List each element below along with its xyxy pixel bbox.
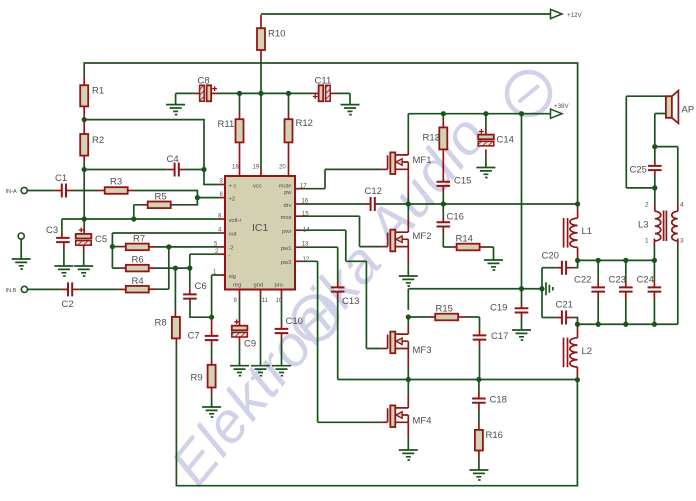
ground (MF4) <box>399 450 418 460</box>
wire C7 to R9 <box>211 347 213 359</box>
svg-text:AP: AP <box>682 105 695 116</box>
svg-text:C16: C16 <box>447 212 464 223</box>
svg-text:R14: R14 <box>456 234 473 245</box>
svg-text:17: 17 <box>300 184 307 190</box>
wire R15 to C17 <box>465 317 480 329</box>
capacitor C3 <box>56 238 70 242</box>
capacitor C23 <box>619 287 633 291</box>
svg-text:R12: R12 <box>296 118 313 129</box>
junction <box>82 167 87 172</box>
svg-text:C10: C10 <box>286 316 303 327</box>
svg-text:pw2: pw2 <box>281 260 292 266</box>
wire to L3 pin1 <box>653 246 655 261</box>
svg-text:+ c: + c <box>229 183 237 189</box>
junction <box>596 258 601 263</box>
svg-text:L1: L1 <box>582 226 593 237</box>
svg-text:+2: +2 <box>229 197 236 203</box>
chassis ground <box>546 282 553 295</box>
resistor R4 <box>126 286 149 293</box>
svg-text:+38V: +38V <box>554 103 569 110</box>
wire to pin2 <box>190 254 218 268</box>
svg-text:16: 16 <box>302 199 309 205</box>
junction <box>575 258 580 263</box>
junction <box>575 377 580 382</box>
wire R6 right <box>156 267 190 269</box>
capacitor C24 <box>648 287 662 291</box>
svg-text:1: 1 <box>645 238 649 245</box>
wire AP top <box>626 95 666 97</box>
wire R7 to pin5 <box>156 246 218 248</box>
ground (R14) <box>484 260 503 270</box>
capacitor C14 (electrolytic) <box>478 135 494 140</box>
capacitor C18 <box>472 399 486 403</box>
wire to R7 left <box>112 246 118 248</box>
svg-text:C6: C6 <box>195 281 207 292</box>
transistor MF1 (MOSFET) <box>387 155 389 169</box>
wire C11 to ground <box>336 93 350 104</box>
wire C19 to ground <box>521 318 523 330</box>
svg-text:MF4: MF4 <box>413 416 432 427</box>
ground (C9) <box>230 366 249 376</box>
ground (C3) <box>54 266 73 276</box>
ground (C8) <box>166 105 185 115</box>
wire <box>597 300 599 325</box>
svg-text:-2: -2 <box>229 246 234 252</box>
junction <box>596 322 601 327</box>
svg-text:pro: pro <box>275 283 283 289</box>
svg-text:C5: C5 <box>95 234 107 245</box>
svg-text:C25: C25 <box>630 165 647 176</box>
wire to C3 <box>61 219 63 234</box>
svg-text:C17: C17 <box>491 331 508 342</box>
transistor MF4 (MOSFET) <box>387 408 389 422</box>
junction <box>173 266 178 271</box>
resistor R16 <box>475 430 483 451</box>
svg-text:C19: C19 <box>490 303 507 314</box>
terminal IN-B <box>21 286 27 292</box>
wire pin4 to R6 left <box>112 233 119 268</box>
wire R5 to pin6 node <box>171 198 198 205</box>
capacitor C6 <box>183 294 197 298</box>
wire R10 to vcc pin19 <box>260 58 262 169</box>
svg-text:R4: R4 <box>132 276 144 287</box>
junction <box>652 322 657 327</box>
svg-text:R9: R9 <box>191 373 203 384</box>
wire R1R2 to pin3 node <box>84 120 204 170</box>
wire AP top down <box>625 96 627 188</box>
svg-text:pw: pw <box>284 190 292 196</box>
svg-text:MF3: MF3 <box>413 345 432 356</box>
wire to C5 <box>83 219 85 227</box>
wire C20-C21 left <box>541 268 543 318</box>
ground (C11) <box>341 105 360 115</box>
wire MF4 drain up <box>407 380 409 395</box>
inductor L2 <box>570 338 578 367</box>
wire +38V to C14 <box>485 114 487 127</box>
wire to C20 <box>542 267 556 269</box>
wire vcc to R11 <box>239 93 241 111</box>
wire to L3 pin2 <box>654 188 656 205</box>
resistor R7 <box>126 244 149 251</box>
transistor MF3 (MOSFET) <box>387 335 389 349</box>
svg-text:11: 11 <box>262 298 269 304</box>
wire C15-C16 node <box>442 193 444 217</box>
wire R5 left down <box>134 205 142 219</box>
watermark <box>159 72 550 497</box>
capacitor C13 <box>331 287 345 291</box>
wire MF2 drain up <box>407 204 409 218</box>
resistor R12 <box>285 119 293 142</box>
svg-text:C11: C11 <box>315 76 332 87</box>
supply arrow +12V <box>551 9 563 18</box>
wire to L3 pin4 <box>655 147 678 205</box>
wire C25 bottom <box>654 176 656 188</box>
wire +38V to R13 <box>442 114 444 120</box>
junction <box>575 201 580 206</box>
capacitor C12 <box>371 197 375 211</box>
resistor R3 <box>105 187 128 194</box>
capacitor C5 (electrolytic) <box>76 234 92 239</box>
junction <box>623 322 628 327</box>
ground (R16) <box>469 470 488 480</box>
svg-text:IC1: IC1 <box>252 222 269 234</box>
component pin leads <box>83 77 85 85</box>
junction <box>539 286 544 291</box>
junction <box>131 216 136 221</box>
svg-text:3: 3 <box>680 238 684 245</box>
resistor R14 <box>457 244 480 251</box>
wire vcc to R12 <box>288 93 290 111</box>
svg-text:sig: sig <box>229 274 236 280</box>
resistor R11 <box>236 119 244 142</box>
svg-text:19: 19 <box>253 165 260 171</box>
svg-text:R2: R2 <box>92 135 104 146</box>
inductor L1 <box>570 218 578 247</box>
wire <box>407 198 409 204</box>
wire feedback bottom rail <box>176 344 577 486</box>
svg-text:13: 13 <box>302 242 309 248</box>
resistor R10 <box>257 28 265 50</box>
capacitor C4 <box>175 163 179 177</box>
svg-text:R1: R1 <box>92 86 104 97</box>
svg-text:gnd: gnd <box>254 283 264 289</box>
svg-text:C13: C13 <box>342 296 359 307</box>
wire MF1 source down <box>407 197 409 204</box>
capacitor C25 <box>648 166 662 170</box>
wire pin9 to C9 <box>239 297 241 321</box>
svg-text:C4: C4 <box>167 154 179 165</box>
resistor R1 <box>80 85 88 106</box>
svg-text:reg: reg <box>233 283 241 289</box>
svg-text:pwr: pwr <box>282 229 291 235</box>
capacitor C21 <box>562 311 566 325</box>
wire C4 to pin3 <box>185 170 218 185</box>
terminal signal ground <box>18 233 24 239</box>
wire C13 down <box>337 298 339 380</box>
junction <box>286 91 291 96</box>
junction <box>483 111 488 116</box>
wire pin10 to C10 <box>281 297 283 322</box>
ground (terminal) <box>12 259 31 269</box>
svg-text:R5: R5 <box>155 192 167 203</box>
wire <box>625 260 627 279</box>
svg-text:C20: C20 <box>542 251 559 262</box>
svg-text:C9: C9 <box>244 339 256 350</box>
wire R16 to ground <box>478 457 480 470</box>
junction <box>652 185 657 190</box>
junction <box>82 117 87 122</box>
wire R14 to ground <box>487 247 494 260</box>
svg-text:C1: C1 <box>55 173 67 184</box>
wire C21 right <box>572 318 577 325</box>
wire pin1 sig <box>212 275 218 317</box>
wire C9 to ground <box>239 344 241 366</box>
junction <box>406 201 411 206</box>
wire to C6 <box>189 268 191 288</box>
capacitor C16 <box>437 222 451 226</box>
wire C18 to R16 <box>478 410 480 423</box>
transformer L3 <box>655 211 661 241</box>
wire C8 to ground <box>176 93 194 104</box>
wire midpoint2 rail <box>338 379 578 381</box>
svg-text:R7: R7 <box>133 234 145 245</box>
wire <box>597 260 599 279</box>
wire to C19 <box>521 289 523 303</box>
svg-text:2: 2 <box>645 202 649 209</box>
speaker AP <box>666 96 672 118</box>
wire MF3 source down <box>407 368 409 380</box>
svg-text:R8: R8 <box>155 318 167 329</box>
wire +38V rail <box>408 113 550 115</box>
svg-text:L3: L3 <box>638 220 649 231</box>
junction <box>82 216 87 221</box>
svg-text:IN.B: IN.B <box>6 288 17 294</box>
wire +38V to node38 <box>521 114 523 289</box>
svg-text:C14: C14 <box>497 135 514 146</box>
wire <box>653 260 655 279</box>
wire top cap rail <box>578 259 655 261</box>
junction <box>519 286 524 291</box>
svg-text:R13: R13 <box>423 133 440 144</box>
wire C1 to R3 <box>73 190 98 192</box>
junction <box>166 244 171 249</box>
wire to R15 <box>408 316 428 318</box>
wire pin8 net <box>62 218 218 220</box>
ground (C14) <box>476 168 495 178</box>
svg-text:C7: C7 <box>188 331 200 342</box>
wire +12V rail <box>261 13 551 15</box>
ground (pin11) <box>251 366 270 376</box>
svg-text:mos: mos <box>281 215 292 221</box>
wire pin17 to MF1 gate <box>302 169 381 188</box>
junction <box>258 91 263 96</box>
wire <box>625 300 627 325</box>
junction <box>406 377 411 382</box>
wire node38 down <box>407 289 409 310</box>
wire pin11 to ground <box>260 297 262 366</box>
capacitor C19 <box>515 308 529 312</box>
wire C10 to ground <box>281 340 283 366</box>
resistor R8 <box>172 317 180 339</box>
junction <box>441 201 446 206</box>
capacitor C10 <box>275 329 289 333</box>
junction <box>575 322 580 327</box>
wire node38 horizontal <box>408 288 542 290</box>
transistor MF2 (MOSFET) <box>387 233 389 247</box>
svg-text:R11: R11 <box>218 119 235 130</box>
resistor R5 <box>148 202 171 209</box>
ground (C5) <box>74 266 93 276</box>
capacitor C1 <box>62 184 66 198</box>
wire pin15 to MF2 gate <box>302 216 381 246</box>
capacitor C20 <box>562 261 566 275</box>
wire C5 to ground <box>83 253 85 267</box>
capacitor C2 <box>68 282 72 296</box>
wire output node A <box>377 203 578 205</box>
wire R2 bottom to pin8 net <box>83 162 85 219</box>
svg-text:C3: C3 <box>46 225 58 236</box>
wire C17 down <box>479 347 481 380</box>
capacitor C15 <box>437 182 451 186</box>
wire MF3 drain up <box>407 317 409 325</box>
svg-text:C18: C18 <box>490 395 507 406</box>
svg-text:vcc: vcc <box>253 183 262 189</box>
ground (R9) <box>202 407 221 417</box>
junction <box>441 111 446 116</box>
wire +38V to MF1 drain <box>407 114 409 149</box>
capacitor C17 <box>473 335 487 339</box>
wire AP top to C25 node <box>626 187 655 189</box>
svg-text:L2: L2 <box>582 346 593 357</box>
wire pin4 net <box>112 232 218 234</box>
svg-text:pw1: pw1 <box>281 246 292 252</box>
svg-text:10: 10 <box>276 298 283 304</box>
wire pin14 to MF3 gate <box>302 230 381 348</box>
ground (C10) <box>272 366 291 376</box>
junction <box>652 258 657 263</box>
capacitor C9 (electrolytic) <box>232 326 248 331</box>
ground (MF2) <box>399 276 418 286</box>
wire to R8 <box>174 268 176 310</box>
junction <box>519 111 524 116</box>
wire terminal to ground <box>20 239 22 259</box>
wire to C21 <box>542 317 556 319</box>
wire MF4 source to ground <box>407 437 409 450</box>
resistor R15 <box>435 314 458 321</box>
terminal IN-A <box>21 187 27 193</box>
resistor R9 <box>208 365 216 388</box>
wire C16 to R14 <box>443 233 451 247</box>
wire pin16 to C12 <box>302 203 364 205</box>
svg-text:+12V: +12V <box>567 12 582 19</box>
resistor R6 <box>126 265 149 272</box>
junction <box>195 195 200 200</box>
capacitor C7 <box>205 336 219 340</box>
capacitor C22 <box>591 287 605 291</box>
junction <box>187 266 192 271</box>
svg-text:drv: drv <box>283 203 291 209</box>
op-amp IC1 (class-D controller) <box>225 176 295 290</box>
wire vcc net <box>218 92 312 94</box>
wire R3 to pin6 <box>134 191 218 198</box>
wire to C25 <box>654 147 656 160</box>
wire to C18 <box>478 380 480 392</box>
capacitor C8 (electrolytic) <box>200 85 205 101</box>
wire C3 to ground <box>63 249 65 266</box>
wire pin13 to C13 <box>302 247 338 281</box>
wire C14 to ground <box>485 156 487 168</box>
supply arrow +38V <box>551 109 563 118</box>
junction <box>237 91 242 96</box>
junction <box>110 244 115 249</box>
svg-text:C2: C2 <box>62 299 74 310</box>
junction <box>623 258 628 263</box>
svg-text:C23: C23 <box>609 275 626 286</box>
svg-text:R16: R16 <box>486 430 503 441</box>
svg-text:14: 14 <box>303 228 310 234</box>
svg-text:R3: R3 <box>110 177 122 188</box>
junction <box>209 315 214 320</box>
svg-text:20: 20 <box>279 165 286 171</box>
junction <box>406 314 411 319</box>
wire R4 right up <box>156 247 169 289</box>
junction <box>201 167 206 172</box>
wire bootstrap rail y63 <box>84 63 577 204</box>
resistor R2 <box>80 134 88 156</box>
wire MF2 source to ground <box>407 264 409 276</box>
svg-text:12: 12 <box>303 257 310 263</box>
svg-text:C12: C12 <box>365 186 382 197</box>
svg-text:C21: C21 <box>556 300 573 311</box>
svg-text:R10: R10 <box>268 29 285 40</box>
wire IN-A to C1 <box>27 190 54 192</box>
svg-text:out: out <box>229 232 237 238</box>
svg-text:-: - <box>229 253 231 259</box>
wire pin12 to MF4 gate <box>302 261 381 422</box>
wire bottom cap rail to L3 pin3 <box>578 244 678 325</box>
wire R2 bottom to C4 <box>84 169 167 171</box>
svg-text:C15: C15 <box>454 176 471 187</box>
resistor R13 <box>439 127 447 149</box>
svg-text:volt-r: volt-r <box>229 218 242 224</box>
svg-text:4: 4 <box>680 202 684 209</box>
svg-text:R6: R6 <box>132 255 144 266</box>
capacitor C11 (electrolytic) <box>319 85 324 101</box>
svg-text:R15: R15 <box>436 304 453 315</box>
svg-text:MF1: MF1 <box>413 155 432 166</box>
svg-text:MF2: MF2 <box>413 231 432 242</box>
junction <box>476 377 481 382</box>
svg-text:C8: C8 <box>198 76 210 87</box>
svg-text:15: 15 <box>302 212 309 218</box>
wire IN-B to C2 <box>28 288 61 290</box>
wire C2 to R4 <box>79 288 118 290</box>
svg-text:mute: mute <box>279 183 292 189</box>
ground (C19) <box>512 330 531 340</box>
svg-text:C22: C22 <box>574 275 591 286</box>
svg-text:18: 18 <box>232 165 239 171</box>
wire AP bottom <box>655 114 666 147</box>
wire C20 right <box>572 260 577 267</box>
wire C6 bottom <box>190 303 212 317</box>
junction <box>652 144 657 149</box>
svg-text:C24: C24 <box>637 275 654 286</box>
wire <box>653 300 655 325</box>
wire R9 to ground <box>211 394 213 407</box>
svg-text:IN-A: IN-A <box>6 189 17 195</box>
